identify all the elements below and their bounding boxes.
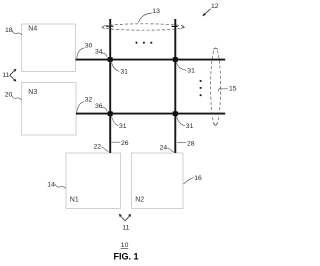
leader 24: [167, 148, 174, 152]
svg-text:10: 10: [121, 242, 129, 249]
wire column line 28: [174, 19, 176, 153]
dashed ellipse 15: [211, 48, 221, 126]
junction 31 at row32/col28: [173, 111, 178, 116]
dashed ellipse 15 top tip: [213, 47, 218, 50]
leader 20: [12, 95, 22, 100]
horizontal continuation dots: [136, 42, 153, 44]
arrows 11 bottom: [120, 216, 130, 221]
vertical continuation dots: [200, 80, 202, 96]
svg-text:31: 31: [119, 123, 127, 130]
node N2 box: [132, 153, 184, 209]
node N3 box: [22, 83, 77, 136]
svg-text:11: 11: [3, 72, 10, 79]
dashed ellipse 15 bottom tip: [213, 123, 218, 126]
tick on column 28: [172, 25, 178, 27]
svg-text:15: 15: [229, 86, 237, 93]
leader 32: [77, 102, 85, 113]
junction 31 at row30/col26: [108, 57, 113, 62]
svg-text:30: 30: [85, 42, 93, 49]
leader 31 bottom-right: [177, 116, 185, 126]
leader 18: [12, 30, 22, 35]
leader 22: [102, 147, 109, 152]
svg-text:FIG. 1: FIG. 1: [114, 252, 139, 262]
wire row line 30: [76, 59, 226, 61]
wire column line 26: [109, 19, 111, 153]
svg-text:24: 24: [160, 145, 168, 152]
svg-text:12: 12: [211, 3, 219, 10]
dashed ellipse 13 left tip: [102, 26, 104, 30]
svg-text:20: 20: [5, 91, 13, 98]
leader 34: [101, 53, 107, 57]
wire row line 32: [76, 113, 225, 115]
svg-text:22: 22: [94, 144, 102, 151]
dashed ellipse 13 right tip: [181, 25, 183, 29]
leader 14: [55, 184, 66, 189]
svg-text:36: 36: [95, 103, 103, 110]
arrow 12: [204, 9, 210, 15]
svg-text:N1: N1: [70, 196, 79, 203]
leader 28: [177, 142, 186, 144]
leader 15: [218, 89, 228, 92]
svg-text:18: 18: [5, 27, 13, 34]
leader 31 bottom-left: [112, 116, 119, 126]
arrows 11 left: [10, 71, 15, 80]
svg-text:31: 31: [120, 69, 128, 76]
leader 31 top-left: [112, 63, 120, 72]
dashed ellipse 13: [102, 24, 185, 30]
svg-text:N3: N3: [28, 89, 37, 96]
leader 16: [184, 178, 194, 184]
leader 30: [77, 48, 85, 59]
svg-text:N4: N4: [28, 25, 37, 32]
svg-text:31: 31: [187, 68, 195, 75]
svg-text:31: 31: [186, 123, 194, 130]
svg-text:32: 32: [85, 96, 93, 103]
node N1 box: [66, 153, 121, 209]
junction 31 at row32/col26: [108, 111, 113, 116]
svg-text:11: 11: [122, 224, 129, 231]
svg-text:13: 13: [152, 8, 160, 15]
leader 31 top-right: [177, 62, 187, 70]
svg-text:14: 14: [47, 181, 55, 188]
node N4 box: [22, 24, 76, 72]
junction 31 at row30/col28: [173, 57, 178, 62]
leader 13: [139, 13, 152, 23]
leader 26: [111, 141, 120, 143]
tick on column 26: [106, 25, 114, 27]
svg-text:34: 34: [95, 48, 103, 55]
leader 36: [101, 107, 107, 111]
svg-text:28: 28: [187, 141, 195, 148]
svg-text:N2: N2: [135, 196, 144, 203]
svg-text:26: 26: [121, 140, 129, 147]
svg-text:16: 16: [194, 175, 202, 182]
